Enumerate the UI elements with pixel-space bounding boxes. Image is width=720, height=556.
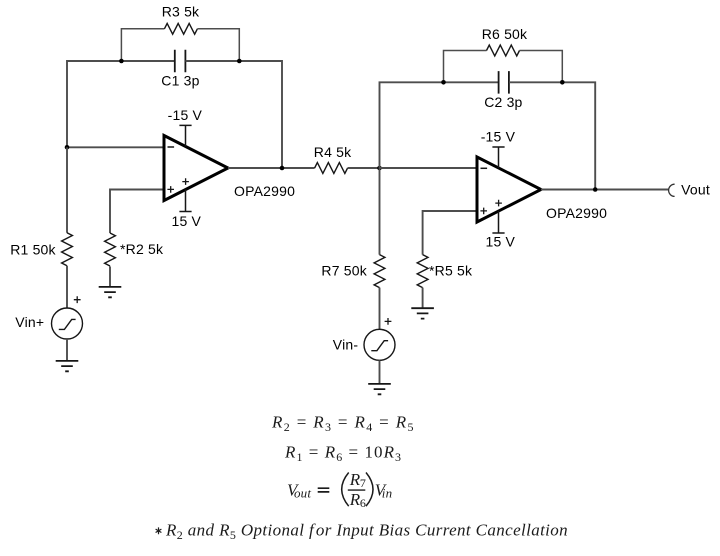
node junction R6/C2 left: [441, 80, 446, 85]
svg-text:C2 3p: C2 3p: [484, 94, 522, 110]
wire R3 right loop: [197, 29, 239, 61]
svg-text:Vout: Vout: [681, 181, 710, 197]
note footnote: [156, 521, 568, 543]
svg-text:R2 and R5 Optional f or Input: R2 and R5 Optional f or Input Bias Curre…: [165, 521, 568, 543]
plus polarity marker Vin-: [385, 318, 392, 325]
wire R3 left loop: [121, 29, 164, 61]
svg-text:Vin-: Vin-: [333, 337, 359, 353]
capacitor C1: [175, 50, 186, 73]
wire inverting input U2: [380, 167, 478, 169]
svg-text:OPA2990: OPA2990: [234, 183, 295, 199]
node B junction: [377, 166, 382, 171]
terminal Vout: [669, 184, 675, 196]
node A junction: [65, 145, 70, 150]
svg-text:-15 V: -15 V: [168, 107, 203, 123]
wire R1 to Vin+ source: [66, 266, 68, 308]
wire R6 left loop: [444, 51, 487, 83]
svg-text:*R2 5k: *R2 5k: [120, 241, 164, 257]
wire node A to C1 left plate: [67, 61, 175, 147]
power pin 15V U1: [179, 190, 191, 212]
wire C2 right plate to output junction U2: [509, 82, 595, 189]
node junction R3/C1 left: [119, 59, 124, 64]
svg-text:R2 = R3 = R4 = R5: R2 = R3 = R4 = R5: [271, 413, 415, 435]
power pin 15V U2: [492, 211, 504, 233]
ground below R5: [411, 308, 434, 318]
svg-text:15 V: 15 V: [172, 213, 202, 229]
resistor R6: [487, 45, 520, 56]
resistor R7: [374, 255, 385, 288]
resistor R1: [62, 233, 73, 266]
svg-text:*R5 5k: *R5 5k: [429, 262, 473, 278]
wire R6 right loop: [520, 51, 563, 83]
resistor R2: [105, 233, 116, 266]
op-amp U2: [477, 157, 541, 222]
svg-text:OPA2990: OPA2990: [546, 205, 607, 221]
note formula line 3: [287, 470, 392, 510]
wire R4 to node B: [348, 167, 380, 169]
resistor R4: [315, 163, 348, 174]
resistor R3: [164, 23, 197, 34]
wire U2 output to Vout: [541, 189, 669, 191]
ground below R2: [99, 287, 122, 297]
node junction R3/C1 right: [237, 59, 242, 64]
wire R2 to ground: [109, 266, 111, 287]
plus polarity marker Vin+: [74, 296, 81, 303]
source Vin+: [52, 308, 83, 339]
svg-text:R4 5k: R4 5k: [314, 144, 352, 160]
ground below Vin+: [56, 361, 79, 371]
wire node B vertical and to C2 left plate: [380, 82, 499, 254]
power pin -15V U1: [179, 125, 191, 146]
resistor R5: [417, 255, 428, 288]
svg-text:Vin+: Vin+: [15, 314, 44, 330]
wire noninverting input U2: [423, 211, 477, 255]
node junction R6/C2 right: [560, 80, 565, 85]
power pin -15V U2: [492, 147, 504, 168]
svg-text:R7 50k: R7 50k: [321, 262, 367, 278]
wire node A down to R1: [66, 147, 68, 233]
wire inverting input U1: [67, 146, 164, 148]
wire Vin+ to ground: [66, 339, 68, 361]
svg-text:15 V: 15 V: [486, 233, 516, 249]
capacitor C2: [499, 71, 509, 94]
node output junction U2: [593, 187, 598, 192]
svg-text:R1 50k: R1 50k: [10, 241, 56, 257]
wire R7 to Vin- source: [379, 288, 381, 330]
wire R5 to ground: [422, 288, 424, 309]
svg-text:R3 5k: R3 5k: [162, 4, 200, 20]
wire Vin- to ground: [379, 360, 381, 384]
svg-text:R6 50k: R6 50k: [482, 26, 528, 42]
op-amp U1: [164, 136, 228, 201]
ground below Vin-: [368, 384, 391, 394]
wire U1 output to R4: [228, 167, 315, 169]
svg-text:C1 3p: C1 3p: [161, 72, 199, 88]
svg-text:-15 V: -15 V: [481, 129, 516, 145]
wire C1 right plate to output junction: [186, 61, 283, 168]
source Vin-: [364, 329, 395, 360]
wire noninverting input U1: [110, 190, 164, 234]
node output junction U1: [280, 166, 285, 171]
